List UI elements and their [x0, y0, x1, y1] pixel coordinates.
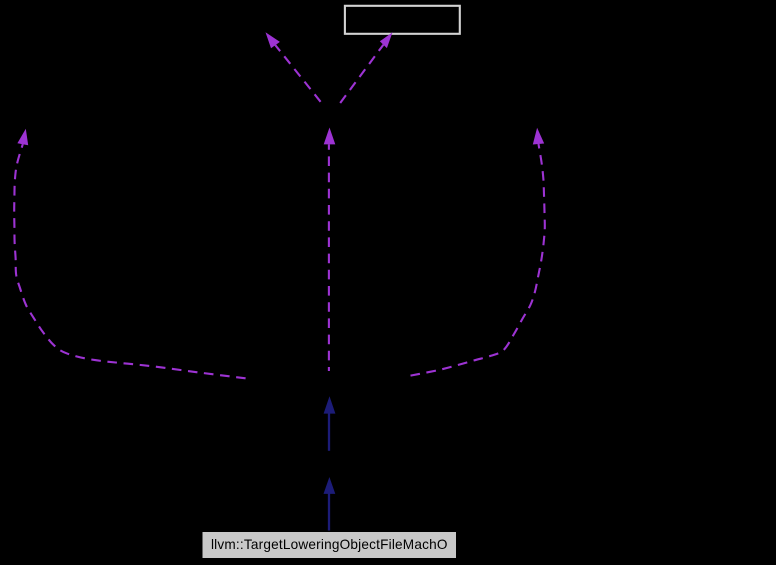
svg-text:llvm::TargetLoweringObjectFile: llvm::TargetLoweringObjectFileMachO [211, 537, 448, 552]
wire: left dashed self-loop curve [14, 129, 245, 379]
node: llvm::TargetLoweringObjectFileMachO [202, 532, 457, 559]
wire: right dashed self-loop curve [411, 128, 545, 376]
wire: upper blue inheritance arrow [324, 396, 336, 451]
wire: lower blue inheritance arrow [324, 477, 336, 531]
wire: dashed edge into top box [340, 32, 392, 103]
node: top truncated box (empty, light border) [345, 6, 460, 34]
wire: dashed edge to upper-left node [266, 32, 321, 102]
wire: center vertical dashed edge [324, 128, 336, 372]
